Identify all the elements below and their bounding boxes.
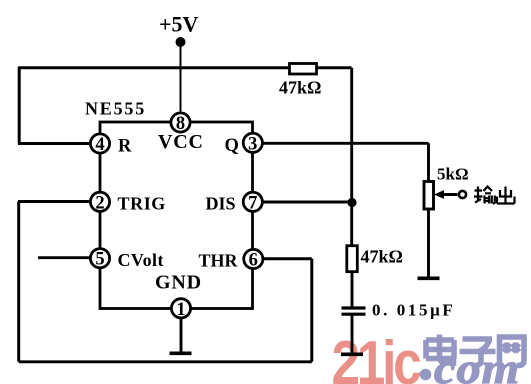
wire resistor to capacitor	[351, 272, 354, 308]
svg-text:TRIG: TRIG	[118, 194, 166, 214]
pin 2	[90, 192, 109, 213]
svg-text:DIS: DIS	[206, 194, 236, 214]
logo 21ic	[331, 329, 421, 384]
+5V terminal dot	[176, 37, 186, 47]
logo 子	[460, 339, 496, 366]
wire CVolt	[38, 256, 91, 259]
ground capacitor	[341, 352, 363, 356]
wire TRIG left	[18, 200, 91, 203]
wire left rail lower	[17, 202, 20, 362]
svg-text:2: 2	[95, 193, 104, 213]
svg-text:com: com	[434, 344, 520, 384]
pin 5	[90, 249, 109, 270]
capacitor 0.015uF	[342, 308, 366, 314]
svg-text:CVolt: CVolt	[118, 250, 164, 270]
wire DIS horizontal	[262, 201, 352, 204]
svg-text:6: 6	[249, 251, 258, 271]
wire bottom	[19, 360, 312, 363]
svg-text:0. 015μF: 0. 015μF	[372, 301, 455, 320]
resistor 47k top	[290, 64, 317, 75]
svg-text:21ic: 21ic	[331, 329, 421, 384]
svg-text:+5V: +5V	[159, 12, 199, 37]
svg-text:4: 4	[95, 135, 104, 155]
svg-text:5kΩ: 5kΩ	[437, 165, 469, 184]
wire +5V vertical	[180, 46, 182, 114]
svg-text:GND: GND	[155, 272, 202, 294]
logo 网	[500, 337, 525, 366]
pin 1	[171, 299, 190, 320]
wire pin4 R	[18, 142, 91, 145]
pin 4	[90, 134, 109, 155]
wire THR riser	[310, 259, 313, 362]
pin 3	[243, 133, 262, 154]
resistor 47k vertical	[347, 246, 358, 272]
svg-text:Q: Q	[225, 136, 239, 156]
potentiometer 5k	[424, 182, 434, 210]
junction dot DIS node	[347, 198, 356, 207]
label 输出	[474, 187, 515, 204]
logo com	[434, 344, 520, 384]
svg-text:3: 3	[248, 134, 257, 154]
svg-text:5: 5	[95, 250, 104, 270]
logo 电	[426, 335, 454, 364]
wire pot branch down	[427, 143, 430, 182]
svg-text:NE555: NE555	[85, 99, 146, 119]
wire THR horizontal	[263, 257, 312, 260]
wire top rail	[19, 66, 352, 69]
svg-text:THR: THR	[199, 251, 239, 271]
wire pot to ground	[427, 209, 430, 277]
svg-text:47kΩ: 47kΩ	[279, 78, 321, 98]
output terminal circle	[459, 191, 466, 198]
pin 8	[171, 113, 190, 134]
pin 7	[243, 192, 262, 213]
wire Q output	[261, 142, 429, 145]
svg-text:7: 7	[248, 193, 257, 213]
svg-text:47kΩ: 47kΩ	[361, 247, 403, 267]
ground pot	[418, 276, 440, 280]
pin 6	[244, 249, 263, 270]
wire capacitor to ground	[351, 314, 354, 353]
pot wiper arrow	[434, 190, 458, 199]
svg-text:VCC: VCC	[158, 131, 204, 153]
ground main below pin1	[180, 317, 183, 353]
IC body NE555	[100, 122, 253, 309]
svg-text:1: 1	[176, 300, 185, 320]
logo dot	[420, 369, 432, 381]
wire right vertical from top rail	[350, 68, 353, 246]
svg-text:R: R	[118, 137, 132, 157]
wire left rail upper	[18, 67, 21, 144]
